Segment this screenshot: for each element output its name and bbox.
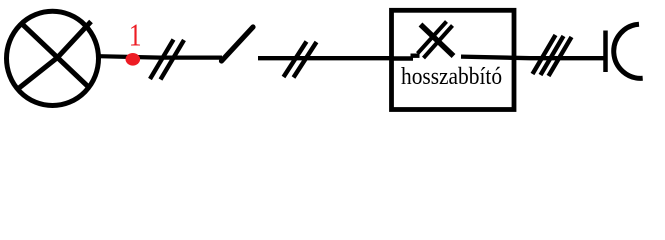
three-conductor slashes bbox=[533, 35, 572, 76]
svg-text:1: 1 bbox=[129, 18, 142, 53]
wire switch to box bbox=[258, 56, 394, 60]
switch arm S1 bbox=[222, 27, 254, 61]
wire stub inside box bbox=[393, 56, 413, 61]
two-conductor slashes bbox=[150, 40, 184, 80]
wire box to socket bbox=[461, 57, 605, 59]
box hosszabbito bbox=[392, 10, 515, 109]
lamp E1 bbox=[7, 11, 99, 105]
socket X1 bbox=[606, 24, 643, 78]
wire lamp to switch bbox=[99, 56, 222, 57]
two-conductor slashes bbox=[284, 42, 317, 78]
X mark bbox=[418, 22, 454, 59]
svg-text:hosszabbító: hosszabbító bbox=[401, 63, 502, 89]
node 1 red dot bbox=[126, 53, 141, 66]
